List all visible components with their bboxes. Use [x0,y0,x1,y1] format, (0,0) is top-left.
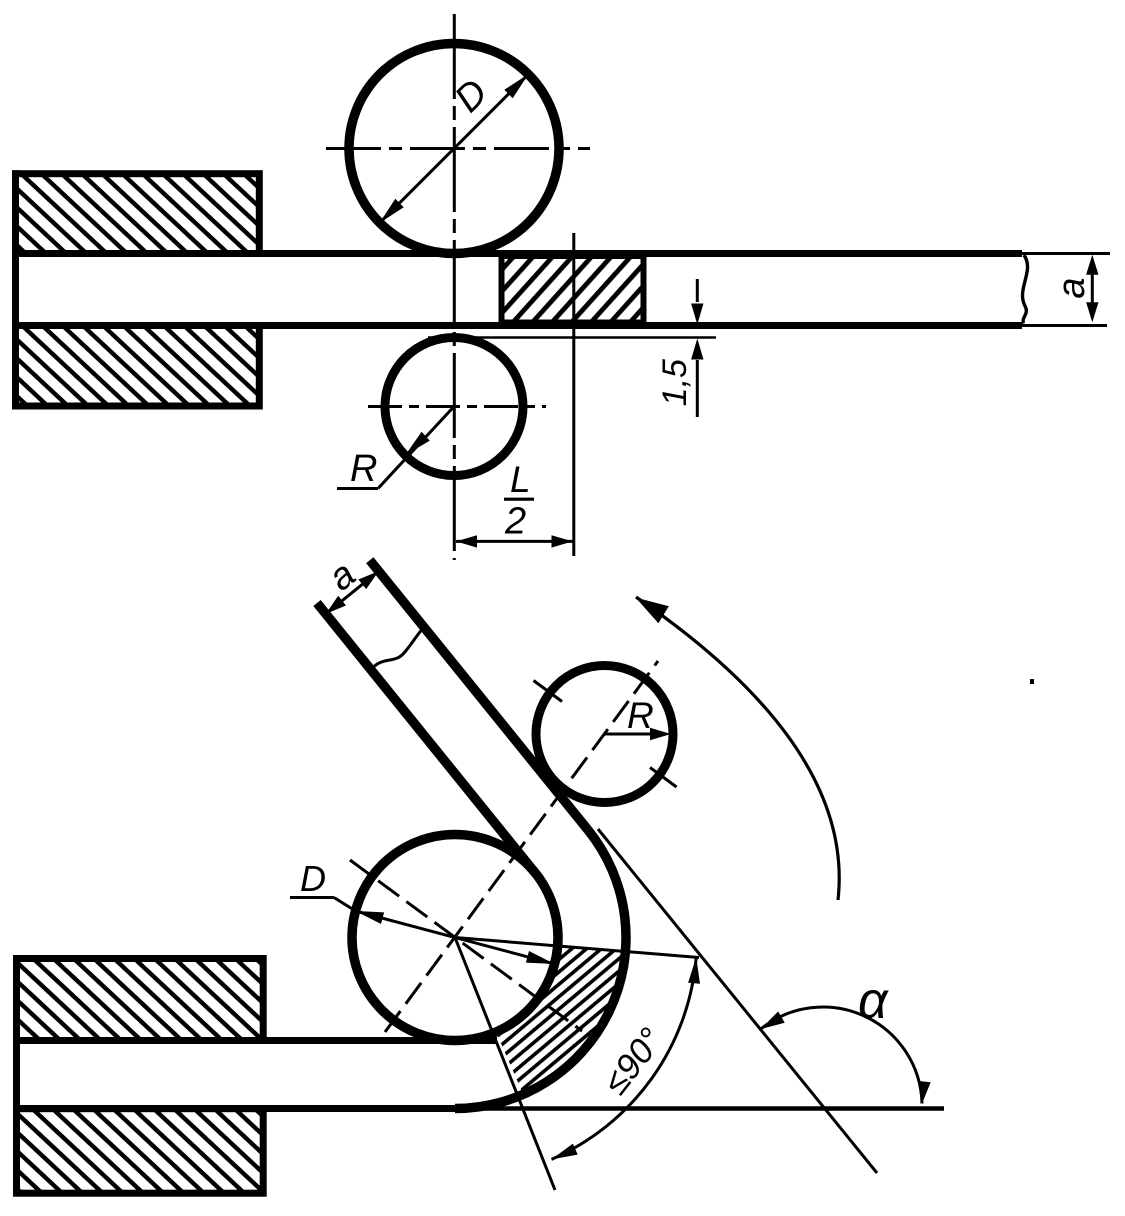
diameter D dimension arrow [380,74,529,223]
dimension 1,5 arrows [691,279,703,417]
dashed axis through both centers [385,661,658,1032]
dimension L/2 arrow [456,535,573,547]
specimen bar thin continuation after break [1022,254,1110,326]
svg-text:R: R [350,448,377,490]
weld section block [502,256,644,323]
angle flank line steep [455,938,555,1191]
weld centre extension line [572,233,575,556]
specimen outer edge: straight + bend arc + arm outer edge [17,560,626,1108]
bend direction swing arrow [636,597,840,900]
svg-text:2: 2 [504,501,526,543]
svg-text:α: α [858,972,889,1030]
radius R arrow (bent view) [605,728,672,740]
roller circle R (bent view) [536,666,673,803]
roller offset tangent line (1,5 reference) [428,336,716,339]
roller circle R (top view) [385,338,523,476]
svg-text:R: R [627,695,654,736]
former circle horizontal centerline [326,147,590,150]
break squiggle (bent arm) [371,627,424,670]
former circle D (bent view) [352,835,558,1041]
svg-text:a: a [1051,277,1093,298]
clamp lower block (bent view) [17,1109,264,1194]
horizontal reference line [455,1106,944,1111]
clamp upper block (top view) [16,174,260,254]
svg-text:L: L [510,459,531,500]
diameter D dimension (bent view) [290,898,555,965]
former circle D (top view) [349,44,559,254]
clamp/specimen left end line (bent view) [13,955,20,1197]
dimension a (top view) arrows [1086,255,1098,322]
dimension a (bent arm end) [326,571,379,614]
roller horizontal centerline [368,405,546,408]
break squiggle (top bar) [1022,255,1027,324]
clamp upper block (bent view) [17,959,264,1041]
stray dot [1030,679,1034,684]
vertical centerline [453,14,456,560]
angle flank line shallow [455,938,699,958]
inclined reference line (outer edge extension) [598,829,877,1173]
specimen inner edge: straight + arm inner edge [17,603,536,1041]
cross axis ticks of roller [534,681,677,788]
svg-text:1,5: 1,5 [656,359,694,406]
hatched bend section (annular sector) [496,946,625,1094]
angle arc <=90 with arrows [552,957,701,1159]
angle alpha arc with arrows [761,1007,931,1103]
svg-text:D: D [300,858,326,899]
dashed cross axis of former [350,860,582,1031]
specimen bar (top view) [16,170,1023,409]
clamp lower block (top view) [16,326,260,407]
label L over 2 [504,459,534,543]
radius R leader and arrow [337,407,454,489]
